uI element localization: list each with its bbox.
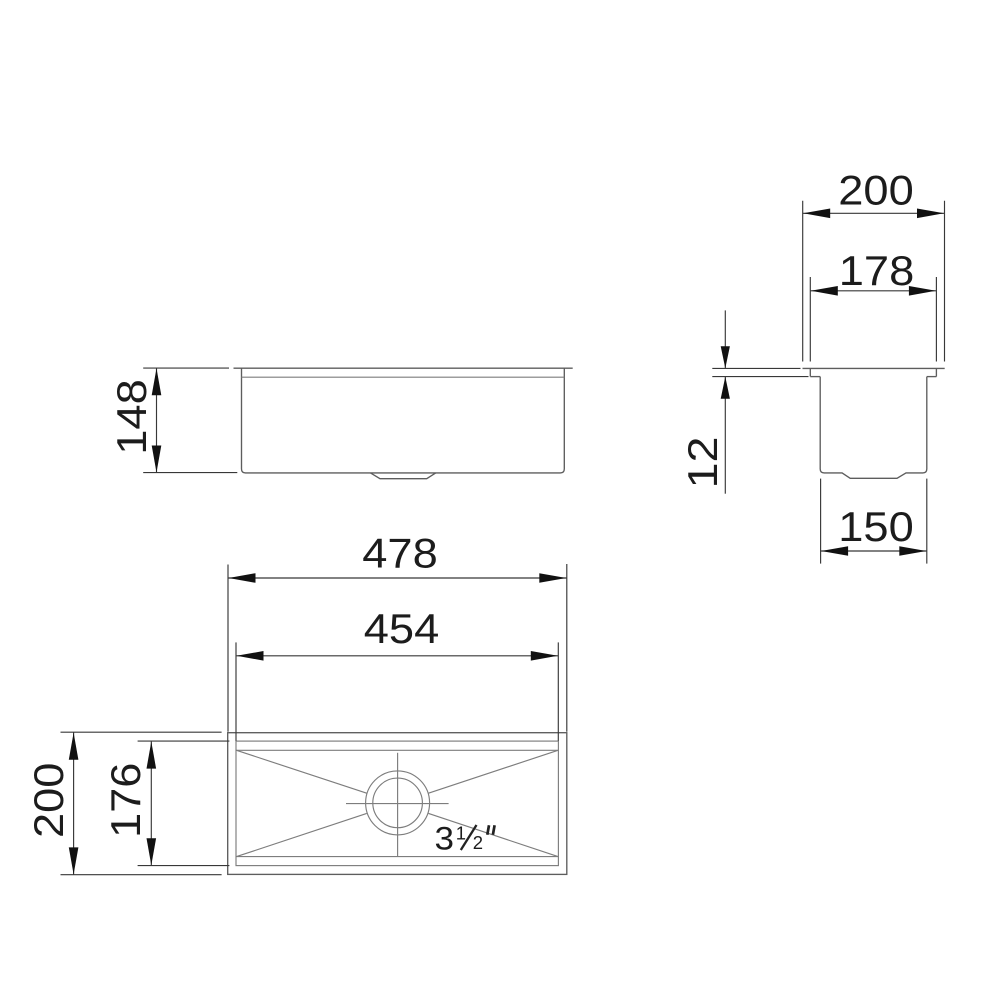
- top view diagonal top-left: [237, 750, 367, 793]
- top view inner rectangle: [236, 741, 558, 866]
- dimension 150 line: [821, 550, 927, 552]
- dimension 176 extension upper: [138, 740, 230, 742]
- dimension 12 lower leader line: [724, 377, 726, 494]
- dimension 150 arrow right: [899, 546, 926, 556]
- drain size label inch mark: [487, 825, 494, 834]
- front view inner rim line: [242, 376, 565, 378]
- dimension 148 arrow down: [152, 446, 162, 473]
- dimension 150 extension right: [926, 479, 928, 564]
- top view diagonal bottom-right: [429, 813, 559, 856]
- svg-text:176: 176: [102, 763, 149, 839]
- svg-text:3: 3: [435, 821, 455, 857]
- dimension 12 upper arrow down: [721, 346, 730, 368]
- dimension 150 extension left: [820, 479, 822, 564]
- dimension 200 top extension upper: [61, 731, 222, 733]
- dimension 12 lower arrow up: [721, 377, 730, 399]
- dimension 478 arrow left: [229, 573, 256, 583]
- side view flange top line: [803, 367, 945, 369]
- side view tub outline with drain recess: [820, 377, 927, 479]
- dimension 200 top line: [73, 732, 75, 874]
- svg-text:178: 178: [839, 247, 915, 294]
- svg-text:150: 150: [838, 503, 914, 550]
- dimension 200 side extension right: [944, 201, 946, 362]
- dimension 478 extension left: [227, 565, 229, 732]
- dimension 454 arrow right: [531, 651, 558, 661]
- dimension 478 line: [228, 577, 567, 579]
- dimension 176 line: [150, 741, 152, 865]
- svg-text:148: 148: [108, 379, 155, 455]
- drain horizontal centerline: [346, 803, 449, 805]
- front view rim line: [234, 367, 573, 369]
- dimension 178 arrow left: [811, 286, 838, 296]
- dimension 150 arrow left: [821, 546, 848, 556]
- side view flange right edge: [935, 368, 937, 376]
- dimension 200 top arrow down: [69, 847, 79, 874]
- svg-text:478: 478: [362, 530, 438, 577]
- dimension 12 extension lower: [712, 376, 808, 378]
- top view lower fold line: [237, 856, 559, 858]
- svg-text:454: 454: [364, 605, 440, 652]
- dimension 148 extension line bottom: [143, 472, 237, 474]
- dimension 200 side extension left: [802, 201, 804, 362]
- dimension 200 side arrow right: [917, 209, 944, 219]
- dimension 478 arrow right: [539, 573, 566, 583]
- dimension 478 extension right: [566, 564, 568, 732]
- dimension 178 extension left: [809, 277, 811, 362]
- dimension 178 line: [810, 290, 936, 292]
- dimension 454 extension right: [557, 642, 559, 740]
- side view flange right step: [927, 376, 937, 378]
- dimension 200 top arrow up: [69, 733, 79, 760]
- svg-text:200: 200: [838, 166, 914, 213]
- dimension 200 side line: [803, 212, 945, 214]
- dimension 454 arrow left: [237, 651, 264, 661]
- drain inner circle: [373, 778, 423, 828]
- side view flange left edge: [809, 368, 811, 376]
- dimension 178 extension right: [935, 277, 937, 362]
- dimension 178 arrow right: [909, 286, 936, 296]
- top view outer rectangle: [228, 733, 567, 875]
- dimension 148 extension line top: [143, 367, 229, 369]
- svg-text:1: 1: [456, 823, 466, 844]
- dimension 454 extension left: [235, 642, 237, 740]
- dimension 200 top extension lower: [61, 874, 222, 876]
- dimension 148 arrow up: [152, 368, 162, 395]
- top view diagonal top-right: [429, 750, 559, 793]
- top view diagonal bottom-left: [237, 813, 367, 856]
- dimension 12 upper leader line: [724, 310, 726, 368]
- svg-text:200: 200: [25, 763, 72, 839]
- dimension 200 side arrow left: [803, 209, 830, 219]
- drain vertical centerline: [397, 753, 399, 856]
- dimension 12 extension upper: [712, 367, 800, 369]
- side view flange left step: [810, 376, 820, 378]
- dimension 454 line: [236, 655, 558, 657]
- top view upper fold line: [237, 749, 559, 751]
- dimension 148 line: [156, 368, 158, 472]
- dimension 176 arrow up: [147, 742, 157, 769]
- drain outer circle: [366, 771, 430, 835]
- svg-text:2: 2: [473, 832, 483, 853]
- front view drain boss: [371, 473, 436, 479]
- dimension 176 extension lower: [138, 865, 230, 867]
- dimension 176 arrow down: [147, 838, 157, 865]
- svg-text:12: 12: [679, 437, 726, 489]
- front view body outline: [242, 368, 565, 473]
- drain size label fraction slash: [461, 825, 477, 850]
